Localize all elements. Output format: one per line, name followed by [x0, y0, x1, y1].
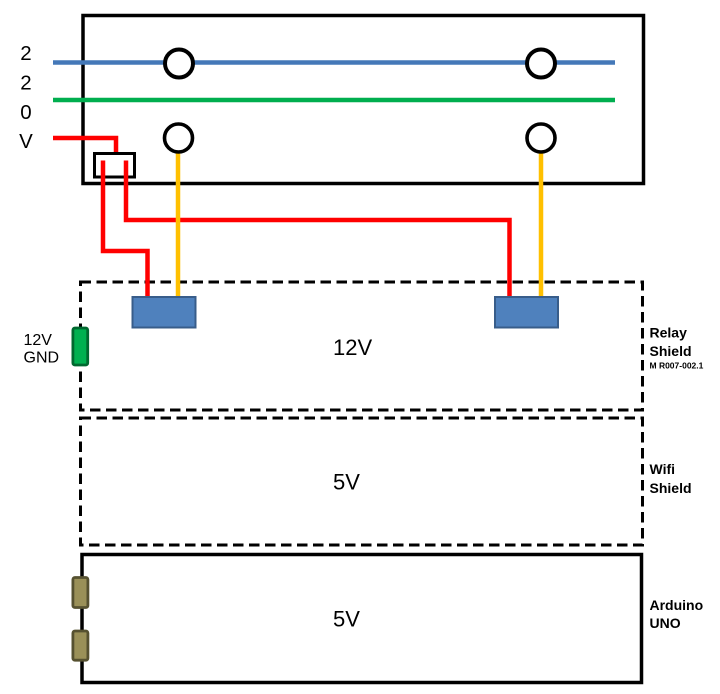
Relay Shield dashed box	[81, 282, 643, 410]
wire: neutral line (green)	[53, 98, 615, 103]
svg-text:5V: 5V	[333, 607, 360, 632]
power pin 1 (olive component)	[73, 578, 88, 608]
Wifi Shield dashed box	[81, 418, 643, 545]
wire: red from terminal block to relay 1	[103, 161, 148, 301]
svg-text:M R007-002.1: M R007-002.1	[650, 360, 704, 370]
svg-text:Shield: Shield	[650, 480, 692, 496]
contact circle bottom-right	[527, 124, 555, 152]
wire: red 220V feed from V label into terminal block	[53, 138, 116, 156]
12V GND terminal (green component)	[73, 328, 88, 365]
relay connector 2 (blue box)	[495, 297, 558, 328]
svg-text:GND: GND	[24, 350, 60, 367]
svg-text:UNO: UNO	[650, 615, 681, 631]
Arduino UNO box	[82, 555, 642, 683]
wire: red from terminal block to relay 2	[126, 161, 510, 301]
svg-text:5V: 5V	[333, 470, 360, 495]
wire: yellow from contact 1 to relay 1	[176, 151, 181, 300]
svg-text:12V: 12V	[333, 335, 372, 360]
contact circle top-left	[165, 50, 193, 78]
svg-text:12V: 12V	[24, 332, 53, 349]
contact circle bottom-left	[165, 124, 193, 152]
svg-text:Wifi: Wifi	[650, 461, 676, 477]
svg-text:2: 2	[20, 42, 31, 65]
svg-text:0: 0	[20, 101, 31, 124]
wire: yellow from contact 2 to relay 2	[539, 151, 544, 300]
contact circle top-right	[527, 50, 555, 78]
terminal block (small box)	[95, 154, 135, 178]
svg-text:Relay: Relay	[650, 325, 688, 341]
power pin 2 (olive component)	[73, 631, 88, 660]
wire: live line (blue)	[53, 60, 615, 65]
relay connector 1 (blue box)	[133, 297, 196, 328]
svg-text:Shield: Shield	[650, 343, 692, 359]
svg-text:V: V	[19, 130, 33, 153]
svg-text:2: 2	[20, 71, 31, 94]
terminal strip box (220V mains block)	[83, 16, 644, 184]
svg-text:Arduino: Arduino	[650, 597, 704, 613]
